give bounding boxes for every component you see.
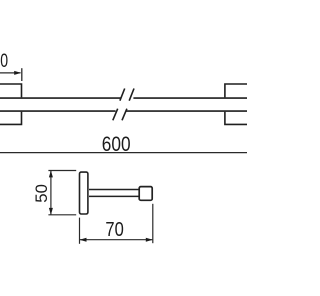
dimension 70 dim line (80, 239, 152, 241)
break mark top slash 1 (120, 89, 125, 101)
end cap (139, 187, 152, 201)
dimension 40 extension line (21, 68, 23, 81)
right end post (225, 84, 247, 124)
dimension 70 arrow left (80, 238, 87, 242)
bar top line right segment (133, 97, 247, 99)
svg-text:600: 600 (102, 134, 131, 157)
break mark top slash 2 (129, 89, 134, 101)
dimension 40 arrow (14, 71, 21, 75)
wall plate (side view) (80, 172, 88, 214)
bar bottom line left segment (0, 110, 116, 112)
break mark bottom slash 2 (122, 109, 127, 121)
bar top line left segment (0, 97, 121, 99)
dimension 40 (cropped): dim line (0, 72, 21, 74)
left end post (0, 84, 22, 124)
dimension 50 bottom extension line (48, 214, 76, 216)
svg-text:0: 0 (0, 50, 8, 72)
dimension 70 arrow right (146, 238, 153, 242)
arm top line (89, 189, 139, 191)
svg-text:70: 70 (105, 217, 123, 240)
dimension 70 right extension line (152, 204, 154, 243)
arm bottom line (89, 195, 139, 197)
dimension 50 dim line (50, 171, 52, 214)
dimension 600 dim line (0, 152, 247, 154)
bar bottom line right segment (126, 110, 247, 112)
dimension 50 arrow down (49, 208, 53, 215)
break mark bottom slash 1 (113, 109, 118, 121)
svg-text:50: 50 (32, 184, 51, 203)
dimension 70 left extension line (79, 218, 81, 244)
dimension 50 arrow up (49, 170, 53, 177)
dimension 50 top extension line (48, 170, 76, 172)
